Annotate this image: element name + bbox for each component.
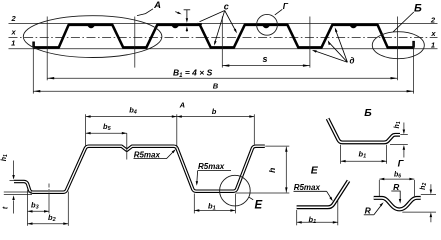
svg-text:h2: h2 bbox=[420, 183, 428, 190]
svg-text:Г: Г bbox=[283, 1, 289, 11]
svg-text:R: R bbox=[365, 206, 372, 216]
svg-text:b: b bbox=[212, 107, 217, 116]
svg-text:x: x bbox=[430, 29, 436, 38]
svg-text:В1 = 4 × S: В1 = 4 × S bbox=[173, 67, 213, 79]
svg-text:Б: Б bbox=[364, 107, 372, 119]
svg-text:Е: Е bbox=[311, 164, 319, 176]
svg-text:c: c bbox=[224, 1, 229, 11]
svg-text:2: 2 bbox=[430, 15, 436, 24]
svg-text:А: А bbox=[179, 101, 185, 110]
svg-text:д: д bbox=[350, 57, 355, 66]
svg-text:s: s bbox=[262, 54, 267, 64]
svg-text:b6: b6 bbox=[394, 171, 401, 179]
svg-text:R5max: R5max bbox=[134, 150, 161, 159]
svg-text:1: 1 bbox=[431, 40, 435, 49]
svg-text:В: В bbox=[213, 81, 219, 90]
svg-text:h1: h1 bbox=[394, 121, 402, 128]
svg-text:1: 1 bbox=[11, 39, 15, 48]
svg-text:R5max: R5max bbox=[294, 183, 321, 192]
svg-text:R: R bbox=[393, 182, 400, 192]
svg-text:x: x bbox=[11, 27, 17, 36]
svg-text:h: h bbox=[267, 168, 277, 173]
svg-text:Б: Б bbox=[414, 3, 422, 15]
svg-text:Е: Е bbox=[254, 199, 262, 211]
svg-text:А: А bbox=[153, 0, 161, 11]
svg-text:2: 2 bbox=[11, 14, 17, 23]
svg-text:R5max: R5max bbox=[198, 162, 225, 171]
svg-text:h1: h1 bbox=[1, 154, 9, 161]
